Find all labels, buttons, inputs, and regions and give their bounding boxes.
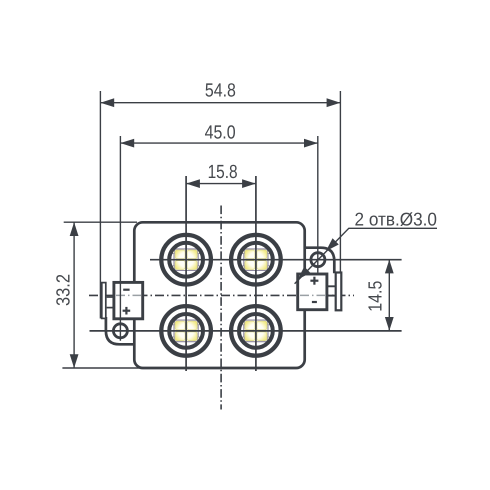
svg-text:54.8: 54.8 — [205, 81, 236, 102]
left connector clip link — [107, 297, 114, 308]
right connector minus mark — [312, 301, 317, 303]
svg-text:45.0: 45.0 — [205, 122, 236, 143]
left connector minus mark — [123, 289, 129, 291]
dimension line 33.2 — [70, 222, 79, 368]
right connector body — [298, 274, 327, 310]
horizontal center axis (dash-dot) — [89, 294, 354, 296]
mounting hole bottom-left — [113, 324, 127, 338]
LED column 1 axis line — [185, 176, 187, 371]
extension line 45.0 right — [317, 136, 319, 273]
right connector clip — [336, 273, 342, 311]
extension line 33.2 top — [64, 221, 137, 223]
right connector plus mark — [310, 277, 318, 285]
extension line 45.0 left — [119, 136, 121, 341]
LED row 1 axis line — [150, 259, 402, 261]
dimension line 54.8 — [100, 98, 340, 107]
leader line to mounting holes — [294, 228, 437, 283]
module body outline — [134, 222, 304, 368]
LED row 2 axis line — [90, 330, 402, 332]
svg-text:15.8: 15.8 — [208, 162, 238, 183]
mounting hole top-right — [311, 253, 325, 267]
center axis dashes over right connector — [300, 294, 325, 296]
svg-text:33.2: 33.2 — [54, 274, 75, 306]
dimension line 45.0 — [120, 139, 317, 148]
mounting tab bottom-left — [106, 317, 137, 344]
svg-text:14.5: 14.5 — [365, 281, 386, 312]
left connector body — [114, 282, 143, 318]
LED D1 top-left — [161, 235, 211, 285]
LED column 2 axis line — [255, 176, 257, 371]
extension line 54.8 right — [339, 91, 341, 273]
dimension line 14.5 — [385, 260, 394, 331]
right connector clip link — [326, 286, 336, 295]
LED D3 bottom-left — [161, 306, 211, 356]
mounting tab top-right — [303, 248, 335, 274]
dimension line 15.8 — [186, 179, 256, 188]
vertical center axis (dash-dot) — [220, 206, 222, 410]
extension line 33.2 bottom — [62, 367, 144, 369]
svg-text:2 отв.Ø3.0: 2 отв.Ø3.0 — [355, 209, 438, 230]
left connector plus mark — [123, 307, 131, 315]
left connector clip — [102, 283, 106, 319]
LED D4 bottom-right — [231, 306, 281, 356]
center axis dashes over left connector — [116, 294, 141, 296]
LED D2 top-right — [231, 235, 281, 285]
extension line 54.8 left — [99, 91, 101, 319]
